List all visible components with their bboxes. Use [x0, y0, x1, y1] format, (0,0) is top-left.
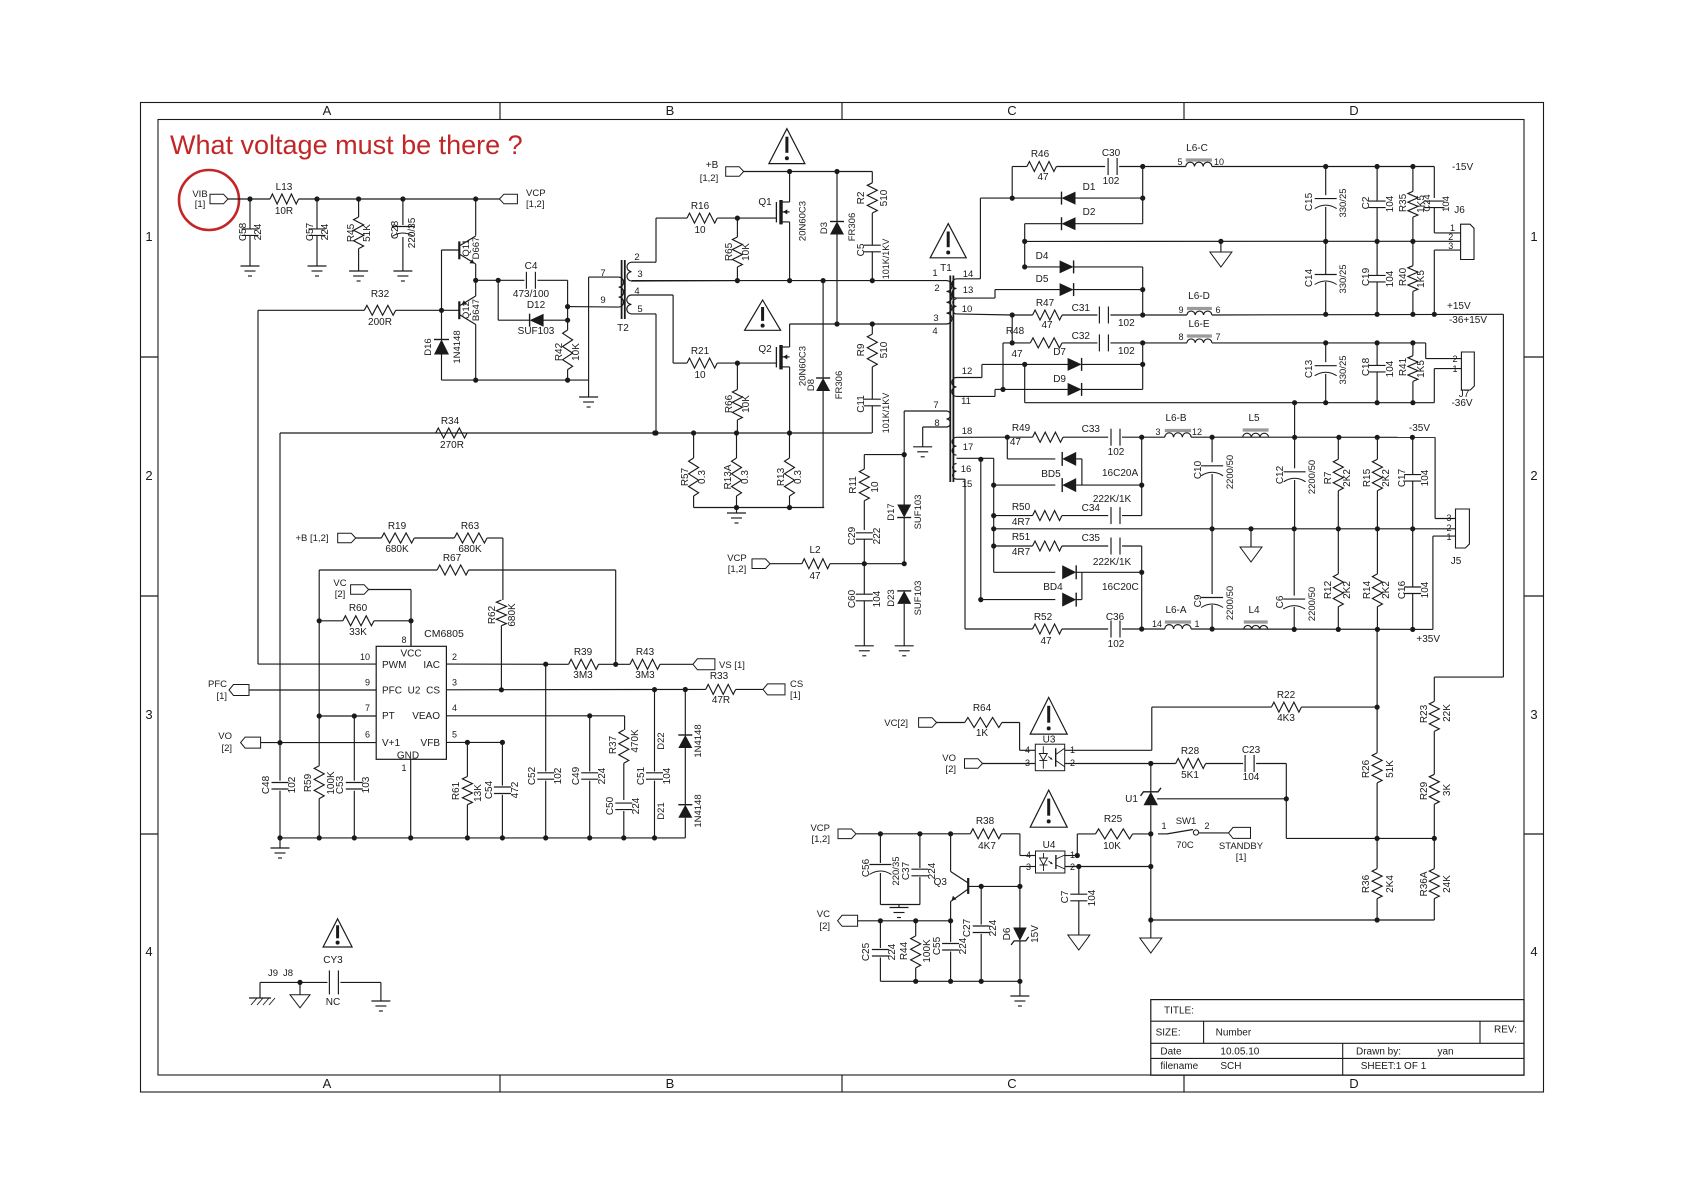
svg-text:VS [1]: VS [1] — [719, 660, 745, 671]
resistor R23 — [1419, 677, 1453, 774]
svg-text:D: D — [1349, 103, 1358, 118]
svg-text:0.3: 0.3 — [740, 470, 751, 484]
ground — [1010, 981, 1029, 1006]
svg-text:C53: C53 — [335, 775, 346, 794]
inductor L4 — [1244, 605, 1268, 629]
svg-text:224: 224 — [631, 797, 642, 814]
wire — [1157, 798, 1286, 800]
diode D17 SUF103 — [886, 455, 924, 564]
svg-text:224: 224 — [988, 919, 999, 936]
warning triangle — [745, 300, 781, 330]
svg-text:1: 1 — [401, 763, 406, 773]
wire — [317, 570, 322, 766]
svg-text:R57: R57 — [680, 467, 691, 486]
wire — [1010, 315, 1015, 346]
svg-text:224: 224 — [958, 937, 969, 954]
svg-text:9: 9 — [1178, 305, 1183, 315]
resistor R28 — [1151, 746, 1243, 781]
wire main rail — [632, 278, 947, 283]
svg-text:D: D — [1349, 1076, 1358, 1091]
svg-text:4R7: 4R7 — [1012, 547, 1031, 558]
capacitor C13 — [1304, 343, 1349, 403]
wire — [1286, 836, 1437, 841]
svg-text:680K: 680K — [507, 603, 518, 627]
wire lower rail — [790, 321, 947, 326]
svg-text:U3: U3 — [1043, 735, 1056, 746]
wire — [260, 980, 327, 985]
svg-text:R16: R16 — [691, 201, 710, 212]
svg-text:330/25: 330/25 — [1338, 264, 1349, 293]
inductor L13 — [270, 182, 299, 217]
svg-text:R60: R60 — [349, 603, 368, 614]
ground — [1068, 935, 1090, 950]
wire — [789, 172, 791, 203]
svg-text:10: 10 — [1214, 157, 1224, 167]
switch SW1 70C — [1158, 816, 1229, 851]
wire — [1426, 343, 1462, 359]
resistor R16 — [687, 201, 776, 236]
svg-text:C37: C37 — [901, 861, 912, 880]
inductor L6-E — [1178, 319, 1220, 343]
svg-text:104: 104 — [1441, 196, 1452, 212]
svg-text:104: 104 — [1420, 469, 1431, 486]
diode D1 — [1010, 182, 1146, 205]
svg-text:9: 9 — [600, 295, 605, 306]
resistor R36 — [1361, 838, 1396, 920]
ground — [1140, 920, 1162, 953]
svg-text:6: 6 — [1215, 305, 1220, 315]
capacitor C29 — [847, 526, 883, 563]
svg-text:R43: R43 — [636, 647, 655, 658]
svg-text:2: 2 — [1530, 468, 1537, 483]
svg-text:+B: +B — [706, 160, 719, 171]
resistor R37 — [608, 716, 641, 800]
wire — [1020, 834, 1036, 856]
svg-text:+15V: +15V — [1447, 301, 1471, 312]
svg-text:5: 5 — [1177, 157, 1182, 167]
capacitor C14 — [1304, 241, 1349, 314]
svg-text:R65: R65 — [724, 242, 735, 261]
svg-text:7: 7 — [365, 703, 370, 713]
wire +B rail — [744, 169, 873, 174]
wire — [1141, 437, 1143, 515]
wire — [1024, 364, 1026, 402]
wire -36 return rail — [1025, 400, 1435, 405]
diode D22 1N4148 — [656, 690, 704, 805]
svg-text:BD5: BD5 — [1041, 469, 1061, 480]
port VC[2] — [884, 718, 936, 729]
wire 0V rail — [1025, 239, 1461, 244]
svg-text:1N4148: 1N4148 — [693, 794, 704, 827]
wire — [565, 280, 570, 330]
wire — [957, 290, 996, 299]
svg-text:R28: R28 — [1181, 746, 1200, 757]
svg-text:R13: R13 — [776, 467, 787, 486]
wire VCC pin8 — [410, 621, 412, 647]
ground — [393, 271, 412, 281]
svg-text:3M3: 3M3 — [573, 670, 593, 681]
ground — [855, 646, 874, 656]
svg-text:C10: C10 — [1193, 460, 1204, 479]
wire — [1081, 459, 1083, 485]
svg-text:3K: 3K — [1442, 784, 1453, 797]
svg-text:R51: R51 — [1012, 532, 1031, 543]
wire — [228, 196, 499, 201]
svg-text:10: 10 — [962, 304, 973, 315]
wire — [789, 222, 791, 281]
svg-text:C33: C33 — [1082, 424, 1101, 435]
ground — [271, 838, 290, 858]
capacitor C58 — [238, 199, 264, 266]
capacitor C54 — [484, 742, 521, 838]
wire R34 rail — [280, 430, 872, 435]
wire — [441, 250, 443, 310]
svg-text:C60: C60 — [847, 589, 858, 608]
wire V+1 pin6 — [261, 740, 377, 745]
connector J6 — [1448, 205, 1474, 260]
port VC [2] — [333, 578, 368, 600]
svg-text:1N4148: 1N4148 — [693, 724, 704, 757]
resistor R26 — [1361, 707, 1396, 838]
wire — [1294, 403, 1296, 438]
svg-text:C52: C52 — [527, 766, 538, 785]
wire — [1065, 866, 1151, 868]
capacitor C51 — [636, 690, 673, 838]
svg-text:2: 2 — [634, 252, 639, 263]
resistor R48 — [1003, 326, 1097, 360]
wire — [1142, 267, 1144, 315]
capacitor CY3 — [268, 955, 343, 1008]
resistor R36A — [1419, 838, 1453, 920]
svg-text:47: 47 — [1041, 320, 1053, 331]
svg-text:yan: yan — [1438, 1046, 1454, 1057]
svg-text:104: 104 — [662, 767, 673, 784]
wire +15V feed — [1434, 314, 1503, 677]
svg-text:12: 12 — [1192, 427, 1202, 437]
resistor R34 — [436, 416, 467, 451]
svg-text:Q1: Q1 — [758, 197, 772, 208]
svg-text:10R: 10R — [275, 206, 293, 217]
svg-text:47R: 47R — [712, 695, 730, 706]
svg-text:3: 3 — [145, 707, 152, 722]
svg-text:R42: R42 — [554, 342, 565, 361]
svg-text:1K5: 1K5 — [1416, 270, 1427, 288]
svg-text:+B [1,2]: +B [1,2] — [295, 533, 328, 544]
inductor L6-A — [1152, 605, 1200, 629]
svg-text:470K: 470K — [630, 729, 641, 753]
svg-text:U4: U4 — [1043, 840, 1056, 851]
svg-text:16C20C: 16C20C — [1102, 582, 1139, 593]
ground — [371, 1001, 390, 1011]
svg-text:CY3: CY3 — [323, 955, 343, 966]
svg-text:2200/50: 2200/50 — [1307, 587, 1318, 621]
diode D16 — [423, 310, 463, 380]
svg-text:[2]: [2] — [335, 589, 346, 600]
wire — [1006, 437, 1008, 459]
capacitor C35 — [1082, 533, 1142, 572]
zener U1 — [1125, 764, 1161, 834]
svg-text:224: 224 — [597, 767, 608, 784]
capacitor C16 — [1397, 529, 1431, 630]
wire — [442, 378, 589, 398]
svg-text:8: 8 — [1178, 332, 1183, 342]
svg-text:4: 4 — [932, 326, 937, 337]
capacitor C2 — [1361, 167, 1396, 242]
svg-text:C57: C57 — [305, 222, 316, 241]
wire — [1065, 761, 1154, 766]
svg-text:VC[2]: VC[2] — [884, 718, 908, 729]
connector J5 — [1446, 509, 1469, 567]
svg-text:510: 510 — [879, 341, 890, 358]
svg-text:J5: J5 — [1451, 556, 1462, 567]
diode D8 FR306 — [806, 281, 845, 508]
warning triangle — [769, 129, 805, 164]
capacitor C57 — [305, 199, 331, 266]
wire +35V rail — [1191, 626, 1440, 645]
svg-text:VEAO: VEAO — [412, 711, 440, 722]
svg-text:C56: C56 — [861, 858, 872, 877]
svg-text:[1]: [1] — [216, 691, 227, 702]
svg-text:R44: R44 — [899, 941, 910, 960]
wire — [502, 538, 504, 600]
wire — [957, 198, 1013, 279]
svg-text:B647: B647 — [471, 299, 482, 321]
svg-text:C25: C25 — [861, 942, 872, 961]
diode D23 SUF103 — [886, 581, 924, 646]
wire — [1142, 167, 1144, 224]
svg-text:1: 1 — [1161, 821, 1166, 831]
resistor R35 — [1398, 167, 1427, 242]
svg-text:D6: D6 — [1002, 927, 1013, 940]
svg-text:2200/50: 2200/50 — [1225, 455, 1236, 489]
svg-text:NC: NC — [326, 997, 340, 1008]
svg-text:101K/1KV: 101K/1KV — [881, 393, 891, 434]
diode BD5 anode A — [1007, 452, 1082, 480]
svg-text:VC: VC — [333, 578, 346, 589]
svg-text:3: 3 — [1446, 513, 1451, 523]
svg-text:270R: 270R — [440, 440, 464, 451]
frame zone labels — [145, 103, 1537, 1091]
resistor R38 — [970, 816, 1020, 852]
wire — [902, 411, 947, 457]
svg-text:17: 17 — [963, 442, 974, 453]
svg-text:B: B — [666, 103, 675, 118]
svg-text:U2: U2 — [408, 686, 421, 697]
svg-text:104: 104 — [1385, 360, 1396, 377]
svg-text:R38: R38 — [976, 816, 995, 827]
svg-text:4: 4 — [452, 703, 457, 713]
svg-text:C32: C32 — [1072, 331, 1091, 342]
wire — [957, 364, 1025, 377]
port VCP [1,2] — [810, 823, 856, 845]
wire — [568, 306, 619, 309]
svg-text:33K: 33K — [349, 627, 367, 638]
svg-text:9: 9 — [365, 678, 370, 688]
svg-text:47: 47 — [1010, 437, 1022, 448]
resistor R32 — [258, 289, 442, 328]
wire — [789, 367, 791, 433]
diode D5 — [995, 274, 1145, 296]
svg-text:C: C — [1007, 103, 1016, 118]
wire — [694, 505, 825, 510]
port +B [1,2] — [700, 160, 744, 184]
resistor R61 — [451, 742, 484, 838]
svg-text:C: C — [1007, 1076, 1016, 1091]
svg-text:R35: R35 — [1398, 193, 1409, 212]
svg-text:330/25: 330/25 — [1338, 355, 1349, 384]
svg-text:472: 472 — [510, 781, 521, 798]
diode BD4 anode B 16C20C — [978, 582, 1139, 607]
svg-text:10: 10 — [870, 481, 881, 493]
wire — [957, 435, 1010, 440]
wire GND pin1 — [410, 759, 412, 838]
svg-text:222: 222 — [872, 527, 883, 544]
svg-text:1: 1 — [1530, 229, 1537, 244]
svg-text:CS: CS — [790, 679, 803, 690]
port VS [1] — [693, 659, 745, 671]
svg-text:C34: C34 — [1082, 503, 1101, 514]
resistor R40 — [1398, 241, 1427, 314]
svg-text:14: 14 — [1152, 619, 1162, 629]
svg-text:47: 47 — [1037, 172, 1049, 183]
diode BD5 anode B 16C20A — [994, 468, 1145, 492]
svg-text:D1: D1 — [1083, 182, 1096, 193]
svg-text:Date: Date — [1160, 1046, 1182, 1057]
wire — [858, 918, 954, 923]
svg-text:102: 102 — [1118, 346, 1135, 357]
wire — [957, 387, 1006, 397]
svg-text:3: 3 — [637, 269, 642, 280]
svg-text:0.3: 0.3 — [793, 470, 804, 484]
capacitor C5 — [856, 239, 891, 281]
diode D7 — [1022, 347, 1145, 371]
wire PFC pin9 — [249, 689, 376, 691]
svg-text:Q3: Q3 — [934, 877, 948, 888]
svg-text:1N4148: 1N4148 — [452, 330, 463, 363]
svg-text:D7: D7 — [1053, 347, 1066, 358]
svg-text:C19: C19 — [1361, 267, 1372, 286]
wire PT pin7 — [319, 713, 376, 718]
svg-text:SUF103: SUF103 — [913, 581, 924, 616]
svg-text:12: 12 — [962, 366, 973, 377]
wire PWM pin10 — [258, 663, 376, 665]
svg-text:2K2: 2K2 — [1342, 469, 1353, 487]
svg-text:[1,2]: [1,2] — [700, 173, 719, 184]
resistor R57 — [680, 433, 708, 508]
svg-text:[1]: [1] — [195, 199, 206, 210]
capacitor C52 — [527, 664, 564, 838]
capacitor C53 — [335, 716, 372, 838]
svg-text:C51: C51 — [636, 766, 647, 785]
svg-text:L4: L4 — [1248, 605, 1260, 616]
svg-text:510: 510 — [879, 189, 890, 206]
diode D12 — [498, 300, 570, 337]
svg-text:4R7: 4R7 — [1012, 517, 1031, 528]
ground — [890, 908, 909, 918]
resistor R39 — [569, 647, 630, 681]
svg-text:R7: R7 — [1323, 471, 1334, 484]
wire — [497, 280, 499, 320]
svg-text:VFB: VFB — [421, 738, 441, 749]
svg-text:C58: C58 — [238, 222, 249, 241]
svg-text:D4: D4 — [1036, 251, 1049, 262]
svg-text:[2]: [2] — [221, 743, 232, 754]
svg-text:C4: C4 — [525, 261, 538, 272]
svg-text:filename: filename — [1160, 1061, 1198, 1072]
svg-text:7: 7 — [600, 268, 605, 279]
svg-text:VO: VO — [942, 753, 956, 764]
svg-text:224: 224 — [887, 943, 898, 960]
svg-text:220/35: 220/35 — [407, 217, 418, 248]
optocoupler U4 — [1026, 840, 1075, 873]
svg-text:R61: R61 — [451, 781, 462, 800]
svg-text:18: 18 — [962, 426, 973, 437]
warning triangle — [930, 224, 966, 258]
svg-text:D5: D5 — [1036, 274, 1049, 285]
resistor R14 — [1362, 529, 1392, 630]
svg-text:C28: C28 — [390, 220, 401, 239]
svg-text:10.05.10: 10.05.10 — [1220, 1046, 1259, 1057]
svg-text:5: 5 — [452, 730, 457, 740]
resistor R63 — [454, 521, 503, 555]
svg-text:D9: D9 — [1053, 374, 1066, 385]
resistor R47 — [957, 298, 1098, 331]
wire -15V rail — [1212, 162, 1474, 173]
svg-text:C27: C27 — [962, 918, 973, 937]
svg-text:2: 2 — [452, 652, 457, 662]
port VIB [1] — [192, 189, 228, 210]
svg-text:2: 2 — [1204, 821, 1209, 831]
svg-text:R45: R45 — [346, 223, 357, 242]
port STANDBY [1] — [1219, 827, 1264, 863]
warning triangle — [323, 919, 352, 947]
svg-text:R40: R40 — [1398, 267, 1409, 286]
resistor R62 — [487, 600, 518, 690]
svg-text:R23: R23 — [1419, 704, 1430, 723]
svg-text:3: 3 — [1448, 241, 1453, 251]
capacitor C27 — [962, 886, 999, 981]
wire — [1142, 343, 1144, 390]
resistor R25 — [1077, 814, 1153, 852]
wire — [993, 546, 995, 572]
svg-text:R36: R36 — [1361, 874, 1372, 893]
svg-text:104: 104 — [1385, 270, 1396, 287]
port CS [1] — [763, 679, 803, 701]
svg-text:R62: R62 — [487, 605, 498, 624]
svg-text:4: 4 — [1025, 745, 1030, 755]
svg-text:10K: 10K — [741, 243, 752, 261]
resistor R42 — [554, 330, 582, 380]
inductor L5 — [1243, 413, 1269, 437]
svg-text:D12: D12 — [527, 300, 546, 311]
svg-text:10: 10 — [360, 652, 370, 662]
wire — [880, 905, 920, 908]
svg-text:R2: R2 — [856, 191, 867, 204]
svg-text:0.3: 0.3 — [697, 470, 708, 484]
zener D6 15V — [1002, 886, 1041, 981]
transistor Q3 — [934, 834, 1020, 921]
svg-text:SIZE:: SIZE: — [1156, 1028, 1181, 1039]
svg-text:104: 104 — [1385, 195, 1396, 212]
wire — [1435, 437, 1455, 518]
ground — [349, 271, 368, 281]
svg-text:R32: R32 — [371, 289, 390, 300]
svg-text:3M3: 3M3 — [635, 670, 655, 681]
svg-text:R19: R19 — [388, 521, 407, 532]
capacitor C7 — [1060, 864, 1098, 935]
svg-text:1K5: 1K5 — [1416, 360, 1427, 378]
resistor R9 — [856, 324, 890, 399]
